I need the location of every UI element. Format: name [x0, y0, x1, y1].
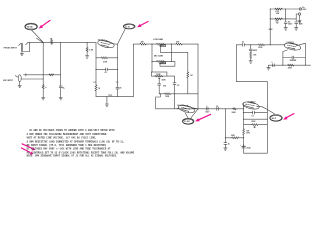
resistor R4 grid leak [86, 43, 93, 56]
svg-text:25/25: 25/25 [253, 50, 257, 52]
wire riser to pots [133, 44, 140, 97]
wire cathode rail x96 [95, 43, 97, 85]
B+ rail down [269, 9, 271, 45]
bus wire mid [156, 108, 244, 110]
resistor R1 small vertical on W1 [50, 38, 53, 44]
ground at jack J2 [18, 82, 21, 88]
switch S1 arm [36, 38, 43, 42]
capacitor C6 on bus [205, 106, 210, 114]
svg-text:B+: B+ [63, 87, 65, 89]
potentiometer P4 wire D2 [244, 121, 268, 128]
svg-text:MIC GAIN: MIC GAIN [154, 54, 163, 57]
capacitor C7 on bus [216, 106, 219, 111]
svg-text:.02: .02 [241, 42, 243, 44]
svg-text:AC AND DC VOLTAGES TAKEN TO GR: AC AND DC VOLTAGES TAKEN TO GROUND WITH … [29, 129, 115, 132]
capacitor C11 feedback [283, 56, 305, 62]
wire W2b ring wire [21, 78, 43, 80]
bottom wire [244, 152, 268, 154]
PSU wire1 [270, 8, 299, 10]
node dot B+ rail [270, 44, 271, 45]
wire stage1 bottom bus [96, 96, 133, 98]
capacitor C3 cathode bypass [116, 85, 122, 97]
svg-text:1MEG: 1MEG [161, 63, 166, 65]
rail from pots to bus [197, 44, 199, 109]
leader line to E3 [191, 109, 199, 119]
triode V2B (1/2 6SC7) [242, 100, 262, 111]
svg-text:+: + [240, 145, 241, 147]
triode V1A (1/2 6SC7) [97, 38, 117, 49]
box around tube2 input [156, 94, 161, 109]
jack J2 barrel [15, 75, 21, 82]
svg-text:.1: .1 [271, 62, 272, 64]
feedback box verticals [282, 52, 284, 66]
capacitor C14 filter [295, 19, 304, 30]
resistor R10 1M vertical [187, 72, 193, 94]
magenta arrow A4 [283, 113, 294, 119]
rail B vertical [243, 113, 245, 129]
capacitor C10 + resistor R12 cathode [249, 45, 257, 63]
magenta arrow A2 [137, 21, 149, 27]
wire pot1 to grid resistor [171, 43, 176, 45]
ground under R4 [85, 56, 88, 58]
ground under R3 [42, 98, 45, 100]
svg-text:NO INPUT SIGNAL [TP-8, TP11 GR: NO INPUT SIGNAL [TP-8, TP11 GROUNDED THR… [27, 144, 107, 147]
wire right tie of pots [170, 44, 172, 61]
capacitor C5 .02 [173, 83, 179, 109]
resistor R9 [164, 93, 198, 98]
wire pot3 right to C5 [167, 76, 175, 83]
PSU dots [270, 8, 271, 9]
svg-text:MIC INPUT: MIC INPUT [3, 80, 14, 82]
svg-text:.02: .02 [104, 72, 106, 74]
node J1 dot [43, 42, 44, 43]
svg-text:.005: .005 [163, 85, 166, 87]
callout ellipse E2 (plate note) [123, 24, 135, 29]
feedback rail tall [236, 45, 267, 113]
grid stub rail [243, 103, 245, 112]
svg-text:UNIT AT RATED LINE VOLTAGE, 11: UNIT AT RATED LINE VOLTAGE, 117 VAC 60 C… [27, 137, 97, 140]
svg-text:.02: .02 [216, 106, 218, 108]
callout ellipse E4 [270, 115, 283, 122]
resistor R3 vertical [42, 85, 44, 89]
contact tick [25, 74, 27, 76]
wire W1 top input wire [27, 42, 96, 44]
svg-text:25/25: 25/25 [246, 148, 250, 150]
triode V2A (1/2 6SC7) [177, 103, 199, 114]
magenta arrow A1 [39, 20, 51, 28]
svg-text:25: 25 [228, 144, 230, 146]
svg-text:5W 140: 5W 140 [27, 26, 33, 29]
capacitor C4 .005 [158, 84, 166, 94]
capacitor C2 .02 row [95, 68, 118, 74]
svg-text:PHONO INPUT: PHONO INPUT [4, 48, 18, 50]
svg-text:DC VOLTAGES MAY VARY +/-20% WI: DC VOLTAGES MAY VARY +/-20% WITH LINE AN… [27, 148, 111, 151]
notes text block [27, 129, 135, 158]
resistor R7 coupling [140, 41, 152, 45]
node cathode dot [250, 44, 251, 45]
resistor R2 in-line on W2a [49, 74, 54, 76]
svg-text:8 OHM RESISTIVE LOAD CONNECTED: 8 OHM RESISTIVE LOAD CONNECTED AT SPEAKE… [27, 140, 125, 143]
node dot rail A [225, 108, 226, 109]
potentiometer P2 [151, 61, 174, 67]
wire NFB [225, 135, 244, 139]
terminal T1 [299, 7, 307, 11]
svg-text:TP12: TP12 [108, 95, 112, 97]
triode V3 (1/2 6SC7) [283, 41, 305, 52]
magenta arrow A5 [22, 144, 36, 151]
svg-text:1W: 1W [276, 23, 279, 25]
wire lower with C8 [244, 111, 268, 118]
leader line to E4 [262, 107, 274, 114]
capacitor C1 vertical [59, 86, 65, 89]
potentiometer P3 [155, 75, 167, 83]
callout ellipse E1 (switch note) [25, 23, 38, 30]
ground left end [267, 65, 270, 70]
tone control box [151, 72, 167, 76]
resistor R15 [275, 8, 283, 15]
resistor R16 [275, 18, 283, 25]
svg-text:BIAS: 5MV SINEWAVE INPUT SIGNA: BIAS: 5MV SINEWAVE INPUT SIGNAL AT J1 FO… [27, 155, 118, 158]
capacitor C12 on bottom [271, 62, 274, 66]
wire left tie of pots [151, 44, 153, 72]
svg-text:.02: .02 [177, 85, 179, 87]
magenta arrow A3 [195, 114, 211, 121]
capacitor C9 coupling [241, 42, 258, 47]
resistor R14 on bottom [288, 64, 294, 69]
svg-text:500MMF: 500MMF [290, 60, 297, 62]
node dot at wire start [29, 42, 30, 43]
rail A from bus [224, 109, 226, 138]
capacitor C16 and ground on rail A [224, 138, 230, 151]
wire mid tie [159, 93, 164, 95]
svg-text:2C 905: 2C 905 [184, 121, 190, 123]
svg-text:0.1: 0.1 [252, 116, 254, 118]
leader line from E2 to tube V1 plate [118, 29, 126, 44]
wire jack sleeve return [22, 43, 30, 52]
PSU wire2 [270, 18, 296, 20]
resistor R17 10K [243, 129, 250, 153]
svg-text:10W: 10W [246, 133, 250, 135]
ground at jack J1 [20, 50, 23, 55]
jack J1 input [19, 43, 28, 50]
node J2 dot [60, 42, 61, 43]
capacitor C15 electrolytic [240, 144, 251, 149]
capacitor C13 filter [284, 9, 293, 30]
wire V1 vertical from J1 [42, 43, 44, 85]
resistor R8 to rail [176, 41, 198, 45]
resistor R5 470K row [96, 57, 118, 64]
ground under C1 [59, 98, 62, 100]
stage4 bottom wire [269, 64, 311, 66]
svg-text:3.3M: 3.3M [89, 50, 93, 52]
node dot W2b joins V1 [43, 78, 44, 79]
stage4 grid wire [236, 44, 242, 46]
resistor R13 grid [258, 44, 285, 49]
resistor R6 cathode [95, 85, 101, 97]
potentiometer P1 [151, 43, 187, 72]
wire D1 [243, 119, 268, 120]
svg-text:25: 25 [120, 88, 122, 90]
svg-text:.1: .1 [206, 106, 207, 108]
svg-text:10W: 10W [276, 13, 280, 15]
node grid-leak dot [87, 42, 88, 43]
svg-text:2C 90: 2C 90 [125, 26, 130, 28]
callout ellipse E3 [182, 118, 194, 124]
magenta arrow A6 [21, 148, 33, 155]
leader line from E1 to node J1 [32, 30, 44, 42]
wire V2 vertical from J2 [60, 43, 62, 86]
svg-text:LOW GAIN: LOW GAIN [153, 38, 163, 41]
leader line 2 to E3 [185, 113, 188, 119]
terminal T2 and ground [296, 13, 301, 23]
wire W2a mic wire [24, 74, 61, 76]
svg-text:A DVM UNDER THE FOLLOWING MEAS: A DVM UNDER THE FOLLOWING MEASUREMENT AN… [27, 133, 108, 136]
rail C lower [266, 113, 268, 154]
wire plate rail x117.5 [117, 44, 119, 85]
ground on bottom bus [105, 95, 112, 106]
resistor R11 on bus [232, 108, 237, 114]
